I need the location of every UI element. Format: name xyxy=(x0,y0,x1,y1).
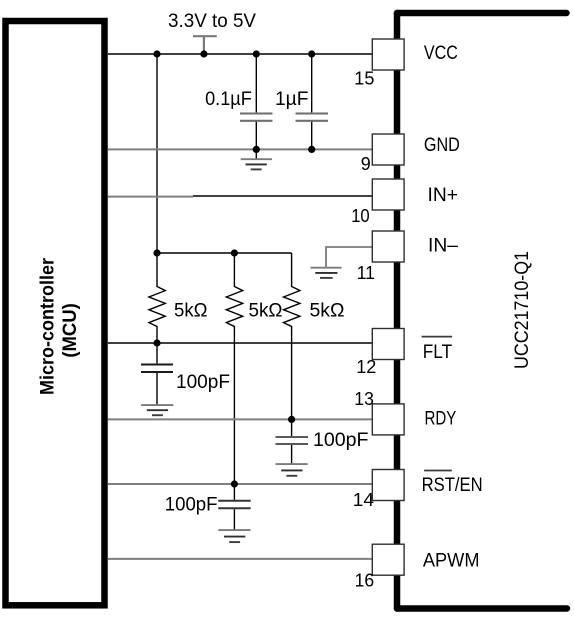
capacitor C 100pF #2 xyxy=(291,419,293,436)
wire RST/EN net xyxy=(108,483,373,485)
pin box 13 RDY xyxy=(372,404,404,435)
resistor R3 5k xyxy=(284,253,300,419)
svg-text:Micro-controller: Micro-controller xyxy=(37,258,59,395)
svg-text:100pF: 100pF xyxy=(165,494,218,516)
wire GND net xyxy=(108,148,373,150)
pin box 11 IN- xyxy=(372,231,404,262)
svg-text:5kΩ: 5kΩ xyxy=(174,300,208,322)
junction GND / C2 xyxy=(308,146,315,153)
capacitor C 100pF #3 xyxy=(233,484,235,500)
svg-text:16: 16 xyxy=(355,571,375,592)
svg-text:IN+: IN+ xyxy=(428,184,459,206)
junction resistor bus / R2 xyxy=(231,249,238,256)
ground under 0.1uF xyxy=(241,159,272,169)
svg-text:5kΩ: 5kΩ xyxy=(249,300,283,322)
MCU box xyxy=(6,21,105,605)
svg-text:5kΩ: 5kΩ xyxy=(310,300,345,322)
pin box 15 VCC xyxy=(372,39,404,70)
ground under 100pF #2 xyxy=(276,464,308,476)
svg-text:1µF: 1µF xyxy=(275,88,309,110)
pin box 14 RST/EN xyxy=(372,470,404,501)
svg-text:APWM: APWM xyxy=(423,549,480,571)
svg-text:FLT: FLT xyxy=(423,341,452,363)
svg-text:GND: GND xyxy=(424,134,460,156)
junction RST-EN / R2 / C5 xyxy=(231,480,238,487)
ground under 100pF #3 xyxy=(218,530,250,542)
junction VCC / C2 xyxy=(308,50,315,57)
svg-text:15: 15 xyxy=(354,69,374,90)
capacitor C 100pF #1 xyxy=(156,343,158,363)
pin box 9 GND xyxy=(372,134,404,165)
pin box 12 FLT xyxy=(372,329,404,360)
junction VCC / resistor-bus drop xyxy=(153,50,160,57)
resistor R2 5k xyxy=(226,253,242,484)
svg-text:IN–: IN– xyxy=(428,234,458,256)
svg-text:100pF: 100pF xyxy=(176,371,230,393)
svg-text:(MCU): (MCU) xyxy=(59,303,81,358)
junction resistor bus / R1 xyxy=(153,249,160,256)
pin box 16 APWM xyxy=(372,544,404,575)
junction RDY / R3 / C4 xyxy=(288,416,295,423)
capacitor C 1uF xyxy=(311,54,313,112)
ground IN- xyxy=(311,268,342,278)
svg-text:RST/EN: RST/EN xyxy=(422,474,483,496)
svg-text:0.1µF: 0.1µF xyxy=(205,88,252,110)
MCU label line 1 xyxy=(37,258,59,395)
svg-text:10: 10 xyxy=(351,206,370,227)
svg-text:13: 13 xyxy=(354,389,374,410)
junction GND / C1 xyxy=(253,146,260,153)
svg-text:12: 12 xyxy=(356,357,376,378)
wire FLT net xyxy=(108,342,373,344)
wire RDY net xyxy=(108,418,373,420)
wire APWM net xyxy=(108,558,373,560)
UCC21710-Q1 IC outline xyxy=(397,13,567,609)
pin box 10 IN+ xyxy=(372,179,404,210)
ground under 100pF #1 xyxy=(141,405,173,415)
capacitor C 0.1uF xyxy=(255,54,257,112)
wire VCC net xyxy=(108,53,373,55)
svg-text:9: 9 xyxy=(361,154,371,175)
svg-text:UCC21710-Q1: UCC21710-Q1 xyxy=(511,251,533,369)
MCU label line 2 xyxy=(59,303,81,358)
junction VCC / C1 xyxy=(253,50,260,57)
wire IN+ net xyxy=(108,196,193,198)
svg-text:3.3V to 5V: 3.3V to 5V xyxy=(168,10,256,32)
svg-text:14: 14 xyxy=(353,490,374,511)
junction VCC / supply symbol xyxy=(200,50,207,57)
svg-text:100pF: 100pF xyxy=(313,429,369,451)
power symbol 3.3V-5V xyxy=(193,36,217,54)
wire vertical from VCC to resistor bus xyxy=(156,54,158,253)
svg-text:VCC: VCC xyxy=(424,42,458,64)
svg-text:RDY: RDY xyxy=(425,408,457,430)
resistor R1 5k xyxy=(149,253,165,343)
wire resistor bus xyxy=(157,252,292,254)
UCC21710-Q1 label xyxy=(511,251,533,369)
wire IN- stub to ground xyxy=(326,247,373,268)
junction FLT / R1 / C3 xyxy=(153,339,160,346)
svg-text:11: 11 xyxy=(357,263,375,284)
